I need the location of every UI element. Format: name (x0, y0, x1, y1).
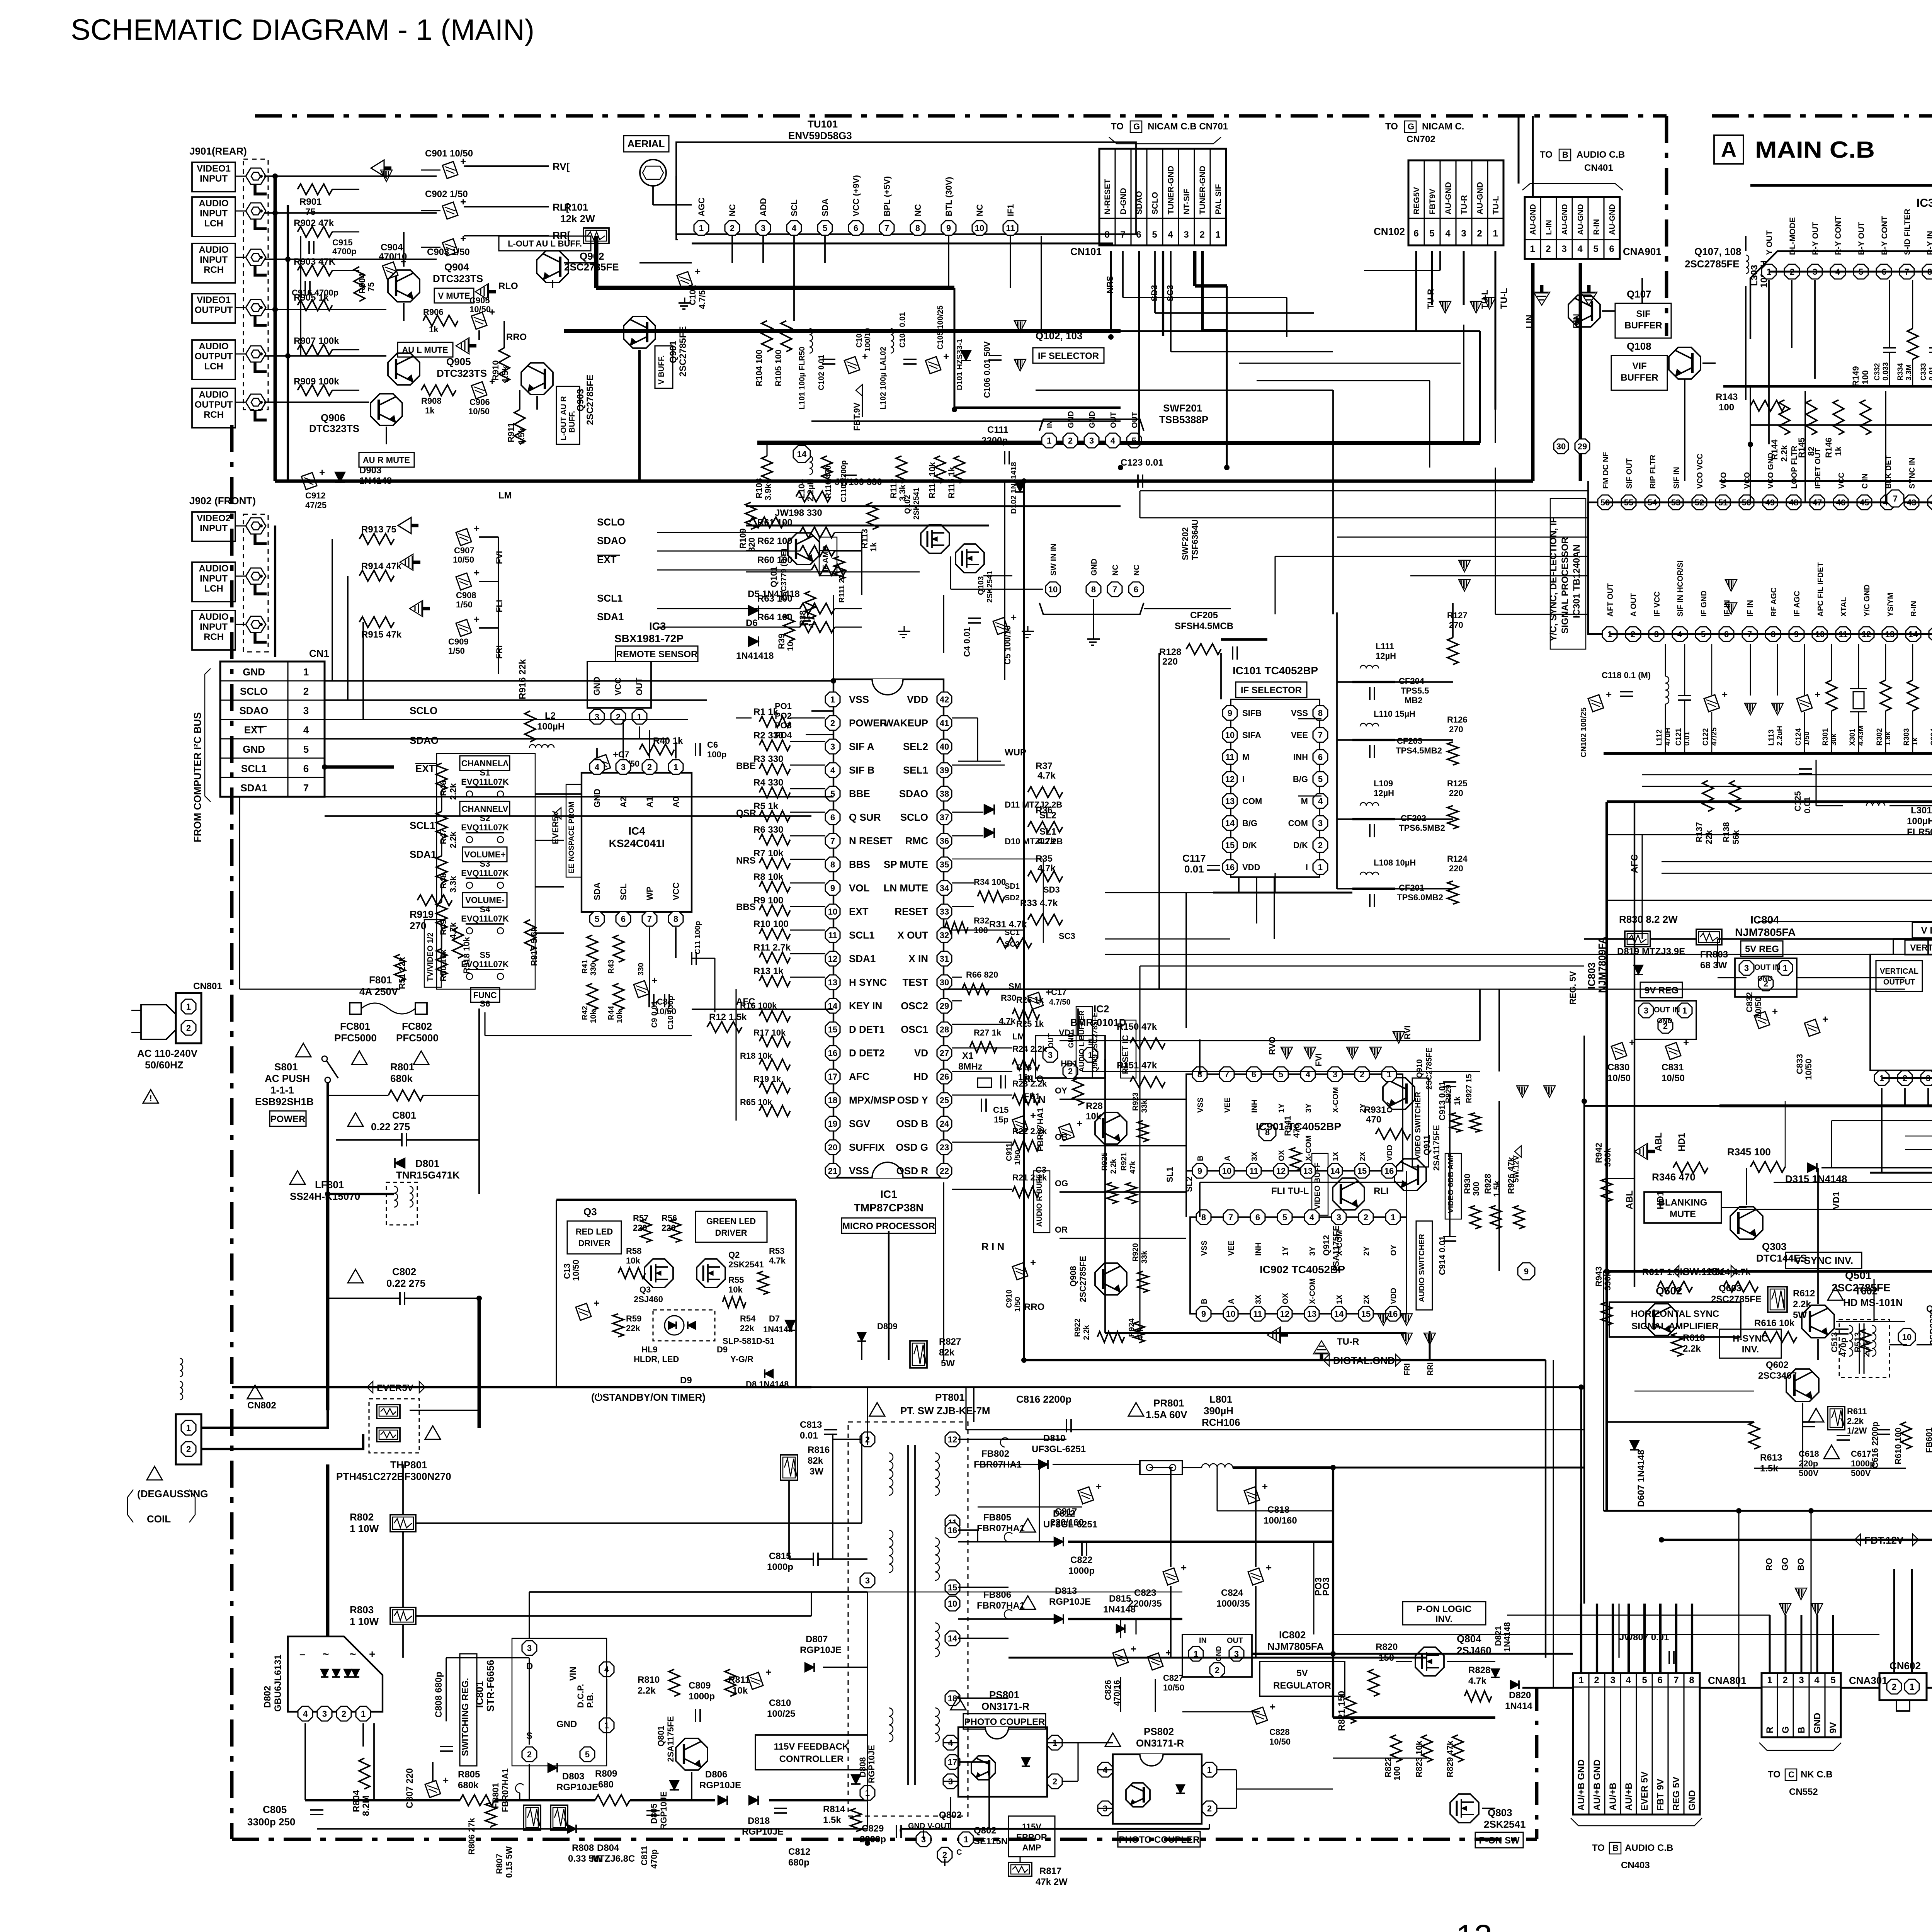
svg-text:1.5k: 1.5k (1492, 1180, 1502, 1197)
label box VERTICAL DRIVE (1905, 940, 1932, 955)
svg-text:R820: R820 (1376, 1642, 1398, 1652)
svg-text:2SC2785FE: 2SC2785FE (585, 374, 595, 425)
svg-text:22k: 22k (740, 1323, 754, 1333)
svg-text:TPS6.5MB2: TPS6.5MB2 (1399, 823, 1445, 833)
svg-text:R909 100k: R909 100k (294, 376, 339, 387)
svg-text:XTAL: XTAL (1840, 597, 1848, 617)
svg-text:R24 2.2k: R24 2.2k (1012, 1044, 1047, 1054)
svg-text:2SK2541: 2SK2541 (912, 488, 921, 520)
svg-text:7: 7 (1673, 1675, 1679, 1685)
IC1 pin 22 OSD R (937, 1163, 952, 1178)
svg-text:I: I (1242, 774, 1245, 784)
svg-text:DRIVER: DRIVER (578, 1238, 610, 1248)
svg-text:12: 12 (1276, 1166, 1286, 1176)
svg-text:1N41418: 1N41418 (736, 651, 774, 661)
IC101 pin 11 M (1223, 750, 1237, 764)
svg-text:Y-G/R: Y-G/R (730, 1354, 753, 1364)
svg-text:4.7k: 4.7k (1468, 1676, 1486, 1686)
svg-text:SIFA: SIFA (1242, 730, 1261, 740)
IC901 TC4052BP video switcher (1186, 1074, 1403, 1171)
IC1 pin 35 SP MUTE (937, 857, 952, 872)
svg-text:20: 20 (828, 1143, 837, 1152)
svg-text:RCH: RCH (204, 410, 224, 420)
capacitor C908 1/50 (456, 567, 480, 590)
svg-text:11: 11 (1006, 223, 1015, 233)
wire long run A2 (1140, 517, 1588, 518)
svg-text:115V FEEDBACK: 115V FEEDBACK (774, 1742, 849, 1752)
svg-text:RED LED: RED LED (576, 1227, 613, 1236)
svg-text:100: 100 (1719, 402, 1734, 413)
IC101 pin 6 INH (1313, 750, 1328, 764)
svg-text:2: 2 (647, 762, 652, 772)
svg-text:10k: 10k (1086, 1111, 1102, 1122)
IC101 pin 13 COM (1223, 794, 1237, 808)
IC4 pin 4 GND (590, 760, 604, 774)
wire q804 links (1396, 1661, 1412, 1662)
svg-text:VIDEO1: VIDEO1 (197, 163, 231, 174)
IC802 regulator (1182, 1634, 1252, 1677)
svg-text:4: 4 (1814, 1675, 1820, 1685)
transistor Q108 (1669, 347, 1701, 379)
transistor Q102 2SK2541a (921, 525, 949, 553)
IC302 pin 2 DL-MODE (1784, 264, 1799, 279)
svg-text:R806 27k: R806 27k (467, 1818, 476, 1855)
svg-text:INPUT: INPUT (200, 208, 228, 219)
svg-text:SIF B: SIF B (849, 764, 874, 776)
svg-text:13: 13 (1225, 796, 1235, 806)
svg-text:GND: GND (243, 666, 265, 678)
label 5W12V tag (1515, 1146, 1521, 1157)
svg-text:X1: X1 (962, 1051, 973, 1061)
svg-text:CN403: CN403 (1621, 1860, 1650, 1871)
label box RESET IC (1121, 1020, 1136, 1078)
svg-text:3: 3 (1644, 1006, 1648, 1015)
capacitor C15 15p (981, 1099, 982, 1112)
capacitor C910 1/50 (1012, 1257, 1036, 1280)
svg-text:AUDIO R BUFF: AUDIO R BUFF (1036, 1174, 1044, 1227)
bus SW115V (1604, 1270, 1932, 1273)
LED HL9 (653, 1310, 715, 1341)
svg-text:30k: 30k (1830, 733, 1838, 746)
wire ic804 out (1718, 977, 1747, 978)
svg-text:220p: 220p (1799, 1459, 1818, 1468)
IC1 pin 24 OSD B (937, 1116, 952, 1131)
capacitor C912 47/25 (301, 466, 325, 490)
svg-text:R513: R513 (1853, 1332, 1862, 1352)
TU101 pin 1 AGC (694, 221, 709, 235)
svg-text:R911: R911 (506, 423, 516, 442)
wire nicam h3 (1171, 351, 1333, 352)
label P-ON LOGIC INV (1403, 1602, 1486, 1625)
svg-text:CHANNELΛ: CHANNELΛ (461, 759, 509, 768)
svg-text:IF SELECTOR: IF SELECTOR (1038, 351, 1099, 361)
svg-text:FVI: FVI (1314, 1053, 1323, 1066)
jack label AUDIO OUTPUT LCH (192, 340, 235, 379)
svg-text:1: 1 (1493, 228, 1498, 239)
label TU-R arrow (1313, 1341, 1330, 1361)
svg-text:!: ! (149, 1094, 152, 1103)
svg-text:IF AGC: IF AGC (1793, 591, 1801, 617)
svg-text:10/50: 10/50 (469, 304, 491, 314)
svg-text:PO2: PO2 (775, 711, 792, 721)
arrow L-IN (1534, 285, 1550, 305)
wire ic1 top (833, 595, 834, 679)
svg-text:C829: C829 (862, 1823, 884, 1834)
svg-text:R12 1.5k: R12 1.5k (709, 1012, 747, 1022)
wire audioL h (264, 212, 437, 214)
svg-text:4.7k: 4.7k (769, 1256, 786, 1265)
J902 dashed jack box (243, 514, 268, 652)
svg-text:EXT: EXT (244, 724, 264, 736)
svg-text:47/25: 47/25 (1710, 727, 1718, 746)
svg-text:R942: R942 (1594, 1143, 1604, 1163)
capacitor C823 2200/35 (1163, 1562, 1187, 1585)
IC101 body (1231, 699, 1320, 877)
capacitor C103 100/10 (844, 350, 868, 374)
svg-text:1: 1 (1578, 1675, 1583, 1685)
capacitor C9 0.01 (648, 994, 650, 1007)
svg-text:OUT: OUT (1131, 412, 1139, 428)
svg-text:3X: 3X (1250, 1151, 1259, 1161)
PT801 pin 11 (945, 1515, 960, 1530)
svg-text:2: 2 (1892, 1682, 1896, 1692)
svg-text:R915 47k: R915 47k (361, 629, 402, 640)
resistor R302 1.8k (1880, 680, 1891, 711)
wire blanking (1721, 1207, 1747, 1208)
svg-text:AU/+B: AU/+B (1624, 1782, 1634, 1811)
transistor Q803 2SK2541 (1450, 1794, 1479, 1823)
svg-text:12µH: 12µH (1376, 651, 1396, 661)
svg-text:D8 1N4148: D8 1N4148 (746, 1379, 789, 1389)
svg-text:G: G (1408, 122, 1414, 131)
svg-text:100: 100 (1861, 370, 1870, 384)
svg-text:C618: C618 (1799, 1449, 1819, 1459)
waveform pin 8 (1259, 1124, 1276, 1141)
svg-text:34: 34 (940, 883, 949, 893)
svg-text:13: 13 (1307, 1309, 1316, 1319)
svg-text:UF3GL-6251: UF3GL-6251 (1043, 1519, 1097, 1530)
svg-text:B: B (1562, 150, 1568, 160)
svg-text:PT801: PT801 (935, 1391, 965, 1403)
svg-text:CONTROLLER: CONTROLLER (779, 1754, 844, 1764)
svg-text:C IN: C IN (1861, 473, 1869, 489)
svg-text:R17 10k: R17 10k (753, 1028, 786, 1037)
svg-text:HD1: HD1 (1061, 1059, 1078, 1068)
wire y872 ext (1121, 330, 1480, 332)
resistor R138 56k (1730, 781, 1740, 811)
svg-text:RF AGC: RF AGC (1770, 587, 1778, 617)
front jack label VIDEO2 (192, 512, 235, 541)
svg-text:VOL: VOL (849, 882, 870, 894)
svg-text:1k: 1k (429, 325, 439, 334)
svg-text:THP801: THP801 (390, 1459, 427, 1471)
resistor R909 100k (298, 385, 332, 396)
svg-text:R150 47k: R150 47k (1117, 1022, 1157, 1032)
svg-text:OB: OB (1055, 1132, 1068, 1142)
wire l303 (1745, 236, 1747, 251)
IC1 pin 30 TEST (937, 975, 952, 990)
svg-text:X OUT: X OUT (898, 929, 929, 941)
svg-text:1X: 1X (1332, 1151, 1340, 1161)
svg-text:C121: C121 (1675, 728, 1683, 746)
svg-text:A0: A0 (671, 797, 681, 808)
svg-text:22k: 22k (626, 1323, 640, 1333)
diode D808 RGP10JE (851, 1775, 861, 1784)
connector CN401 (1525, 197, 1620, 259)
svg-text:Q906: Q906 (321, 412, 345, 423)
wire h long y3060 (1774, 1182, 1932, 1183)
svg-text:+: + (460, 233, 466, 244)
svg-text:GND: GND (592, 789, 602, 808)
capacitor C124 1/50 (1797, 689, 1820, 712)
svg-text:PHOTO COUPLER: PHOTO COUPLER (964, 1717, 1045, 1727)
wire nicam h5 (1123, 297, 1287, 298)
label box AUDIO L BUFFER (1076, 1007, 1092, 1078)
svg-text:VIDEO 6DB AMP: VIDEO 6DB AMP (1447, 1153, 1455, 1213)
svg-text:75: 75 (305, 207, 316, 217)
svg-text:+: + (765, 1666, 771, 1678)
svg-text:SUFFIX: SUFFIX (849, 1141, 885, 1153)
svg-text:RGP10JE: RGP10JE (699, 1780, 741, 1791)
label box L-OUT AU L BUFF. (499, 236, 591, 251)
svg-text:R302: R302 (1876, 728, 1884, 746)
svg-text:680k: 680k (458, 1780, 479, 1791)
warning triangle 1 (143, 1090, 158, 1103)
svg-text:L109: L109 (1374, 779, 1393, 788)
svg-text:R27 1k: R27 1k (974, 1028, 1002, 1037)
wire long run A1 (1140, 490, 1588, 491)
svg-text:GND: GND (243, 743, 265, 755)
svg-text:33k: 33k (1140, 1250, 1149, 1264)
svg-text:30: 30 (940, 978, 949, 987)
svg-text:1: 1 (699, 223, 704, 233)
capacitor C105 100/25 (925, 350, 949, 374)
svg-text:S2: S2 (480, 813, 490, 823)
svg-text:1000p: 1000p (689, 1691, 715, 1702)
TU101 pin 9 BTL (30V) (941, 221, 956, 235)
svg-text:3W: 3W (810, 1466, 823, 1477)
svg-text:SS24H-K15070: SS24H-K15070 (290, 1190, 360, 1202)
wire vert sw x (1199, 1039, 1201, 1074)
wires i2c switches (441, 790, 442, 811)
svg-text:D9: D9 (717, 1345, 728, 1354)
arrow fli (400, 554, 420, 570)
svg-text:21: 21 (828, 1166, 837, 1176)
capacitor C905 10/50 (471, 306, 495, 329)
svg-text:SDA1: SDA1 (410, 849, 436, 860)
warning thp801 (425, 1426, 440, 1439)
svg-text:L112: L112 (1655, 730, 1663, 746)
IC301 pin 46 VCC (1833, 495, 1848, 510)
svg-text:VIF: VIF (1632, 361, 1646, 371)
wire ps802 wires (1097, 1769, 1113, 1770)
IC101 pin 7 VEE (1313, 728, 1328, 742)
svg-text:1.5k: 1.5k (517, 427, 526, 444)
svg-text:VSS: VSS (1200, 1240, 1209, 1256)
svg-text:BUFFER: BUFFER (1624, 320, 1662, 331)
wire jack bus 3 (274, 526, 276, 657)
svg-text:1N4148: 1N4148 (1103, 1604, 1136, 1615)
svg-text:7: 7 (1228, 1213, 1233, 1222)
svg-text:0.22 275: 0.22 275 (386, 1277, 425, 1289)
svg-text:L113: L113 (1767, 730, 1776, 746)
svg-text:SDA1: SDA1 (597, 611, 624, 622)
svg-text:CF202: CF202 (1401, 813, 1426, 823)
svg-text:1 10W: 1 10W (350, 1523, 379, 1534)
svg-text:OSD B: OSD B (896, 1118, 928, 1129)
svg-text:BUFFER: BUFFER (1621, 372, 1658, 383)
svg-text:7: 7 (1318, 730, 1323, 740)
svg-text:1: 1 (673, 762, 678, 772)
svg-text:AGC: AGC (697, 197, 706, 216)
capacitor C826 470/16 (1113, 1643, 1136, 1666)
svg-text:SD3: SD3 (1043, 885, 1060, 895)
wire ifamp h1 (746, 550, 788, 551)
svg-text:VIDEO SWITCHER: VIDEO SWITCHER (1414, 1092, 1422, 1159)
svg-text:+: + (1722, 689, 1728, 700)
svg-text:RCH: RCH (204, 632, 224, 642)
svg-text:1Y: 1Y (1281, 1246, 1290, 1256)
wire run q501 area (1873, 1279, 1874, 1321)
PT801 pin 16 (945, 1523, 960, 1537)
svg-text:1000/35: 1000/35 (1216, 1599, 1250, 1609)
svg-text:2: 2 (942, 1850, 947, 1860)
svg-text:R801: R801 (390, 1061, 414, 1073)
TU101 pin 6 VCC (+9V) (849, 221, 863, 235)
svg-text:2: 2 (1068, 436, 1073, 446)
wire ic1 right runs (952, 717, 978, 718)
capacitor C818 100/160 (1244, 1481, 1268, 1504)
wire ic302 to ic301 v1 (1750, 386, 1751, 502)
svg-text:300: 300 (1471, 1182, 1481, 1196)
svg-text:R901: R901 (299, 197, 321, 207)
svg-text:2: 2 (527, 1750, 532, 1759)
svg-text:CN102 100/25: CN102 100/25 (1580, 707, 1588, 757)
svg-text:16: 16 (1225, 862, 1235, 872)
diode D903 1N4148 (335, 472, 345, 482)
arrow grp3 (1347, 1047, 1358, 1059)
svg-text:SDAO: SDAO (899, 788, 928, 799)
IC1 pin 41 WAKEUP (937, 716, 952, 730)
wire t602 out (1889, 1344, 1907, 1345)
wire q901 v (638, 350, 641, 481)
svg-text:VIDEO1: VIDEO1 (197, 295, 231, 305)
svg-text:FBR07HA1: FBR07HA1 (500, 1768, 510, 1812)
wire q10x area (811, 420, 1121, 422)
capacitor C101 4.7/50 (677, 265, 701, 289)
wire y3060 mid (1200, 1182, 1406, 1183)
svg-text:FB601: FB601 (1924, 1427, 1932, 1453)
IC1 pin 17 AFC (825, 1069, 840, 1084)
svg-text:D5 1N41418: D5 1N41418 (748, 589, 800, 599)
svg-text:28: 28 (940, 1025, 949, 1034)
wire d807 rail (823, 1667, 867, 1668)
svg-text:Q107, 108: Q107, 108 (1694, 246, 1741, 257)
wire smps live (479, 1464, 480, 1515)
svg-text:CHANNELV: CHANNELV (462, 804, 509, 814)
svg-text:IC803: IC803 (1586, 963, 1597, 989)
resistor R906 1k (423, 315, 458, 326)
svg-text:3: 3 (1461, 228, 1466, 239)
svg-text:IC902 TC4052BP: IC902 TC4052BP (1260, 1264, 1345, 1276)
arrow tu-l (1470, 301, 1482, 313)
svg-text:ESB92SH1B: ESB92SH1B (255, 1096, 314, 1107)
svg-text:10k: 10k (728, 1285, 743, 1294)
IC301 pin 15 G-IN (1929, 627, 1932, 641)
svg-text:A OUT: A OUT (1629, 593, 1638, 617)
svg-text:+: + (1606, 689, 1612, 700)
IC804 body (1735, 958, 1797, 997)
IC902 TC4052BP audio switcher (1190, 1217, 1406, 1314)
svg-text:COM: COM (1288, 818, 1308, 828)
svg-text:INH: INH (1250, 1100, 1259, 1113)
capacitor C122 47/25 (1704, 689, 1728, 712)
svg-text:DTC323TS: DTC323TS (433, 273, 483, 284)
svg-text:+: + (613, 748, 619, 760)
svg-text:C815: C815 (769, 1551, 791, 1561)
svg-text:PS802: PS802 (1144, 1726, 1174, 1737)
svg-text:N-RESET: N-RESET (1103, 179, 1112, 214)
svg-text:R810: R810 (638, 1675, 660, 1685)
svg-text:V BUFF.: V BUFF. (657, 355, 666, 384)
svg-text:L-OUT AU R: L-OUT AU R (560, 396, 568, 440)
connector CN702 (1408, 160, 1503, 245)
svg-text:B: B (1796, 1727, 1807, 1733)
svg-text:~: ~ (350, 1648, 356, 1660)
svg-text:2: 2 (1053, 1777, 1057, 1786)
svg-text:6: 6 (1657, 1675, 1662, 1685)
svg-text:L301: L301 (1911, 805, 1932, 816)
svg-text:VSS: VSS (1291, 708, 1308, 718)
svg-text:Q602: Q602 (1766, 1360, 1789, 1370)
svg-text:TU-R: TU-R (1426, 289, 1435, 309)
transistor Q903 2SC2785FE (521, 363, 553, 395)
wire c823 c824 drops (1170, 1468, 1172, 1567)
SWF201 body (1039, 419, 1144, 431)
svg-text:FB805: FB805 (983, 1512, 1011, 1523)
svg-text:C915: C915 (332, 238, 353, 247)
svg-text:9: 9 (1197, 1166, 1202, 1176)
svg-text:C513: C513 (1830, 1332, 1839, 1352)
svg-text:SIF IN: SIF IN (1672, 467, 1681, 489)
svg-text:VEE: VEE (1291, 730, 1308, 740)
svg-text:15p: 15p (994, 1115, 1009, 1124)
svg-text:SDAO: SDAO (410, 735, 439, 746)
label box H-SYNC INV (1719, 1329, 1781, 1358)
wire pon v drops (1396, 1718, 1396, 1735)
arrow fvi (398, 517, 418, 534)
svg-text:38: 38 (940, 789, 949, 799)
capacitor C907 10/50 (456, 522, 480, 546)
svg-text:7: 7 (884, 223, 889, 233)
warning triangle lf801 (290, 1171, 305, 1184)
svg-text:NJM7805FA: NJM7805FA (1267, 1641, 1324, 1652)
svg-text:C822: C822 (1070, 1555, 1092, 1565)
label box 115V ERROR AMP (1009, 1816, 1055, 1857)
svg-text:NC: NC (975, 204, 985, 216)
svg-text:11: 11 (1225, 752, 1234, 762)
wire x4000 v top (1545, 263, 1546, 481)
svg-text:C8: C8 (657, 997, 668, 1007)
svg-text:R28: R28 (1086, 1101, 1103, 1111)
SWF201 pin 4 (1105, 433, 1120, 448)
svg-text:R101: R101 (564, 201, 588, 213)
wire audio buf (1132, 1099, 1159, 1100)
svg-text:L102 100µ LAL02: L102 100µ LAL02 (879, 347, 888, 410)
svg-text:6: 6 (1134, 585, 1138, 594)
capacitor C831 10/50 (1665, 1036, 1689, 1060)
RCA jack J901 pin 3 (246, 249, 266, 265)
